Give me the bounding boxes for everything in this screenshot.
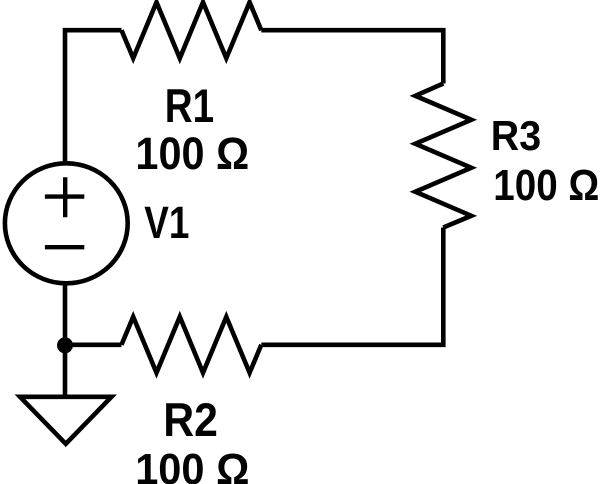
resistor R2 (122, 317, 262, 373)
wire source bottom to ground (63, 285, 68, 397)
node junction dot (57, 337, 73, 353)
voltage source V1 circle (5, 163, 128, 283)
resistor R1 (122, 2, 262, 58)
svg-text:100 Ω: 100 Ω (135, 445, 249, 484)
svg-text:100 Ω: 100 Ω (493, 161, 599, 210)
svg-text:R1: R1 (165, 81, 214, 134)
wire bottom-right corner (261, 228, 443, 345)
wire top-right corner (261, 30, 443, 83)
svg-text:V1: V1 (144, 196, 189, 248)
minus sign (45, 245, 84, 249)
svg-text:R2: R2 (163, 393, 218, 447)
wire top-left corner (65, 30, 122, 161)
ground (20, 397, 112, 444)
svg-text:R3: R3 (491, 112, 541, 159)
wire bottom to node (65, 342, 122, 347)
svg-text:100 Ω: 100 Ω (135, 129, 249, 179)
resistor R3 (415, 84, 471, 228)
plus sign (45, 177, 84, 217)
